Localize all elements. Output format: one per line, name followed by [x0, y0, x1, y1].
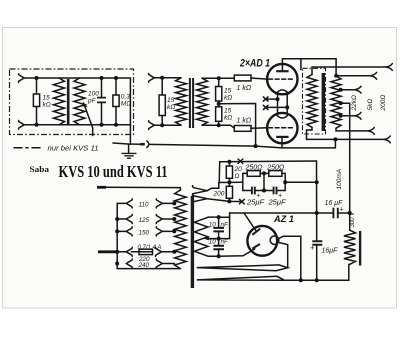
node dot B+ tap — [339, 101, 343, 105]
output transformer core — [322, 73, 325, 131]
svg-text:16μF: 16μF — [322, 248, 339, 255]
svg-text:25μF: 25μF — [246, 198, 264, 207]
tap row 110 right hook — [156, 199, 162, 208]
node dot coil 110 — [172, 201, 176, 205]
wire lower prong to 200 bottom and x-mark — [207, 199, 241, 202]
tap row 150 right hook — [156, 227, 162, 236]
capacitor C3 leads — [264, 190, 285, 192]
power transformer core — [191, 196, 194, 288]
node dot C4 left — [315, 211, 319, 215]
nur bei KVS 11 dash-dot line — [14, 147, 44, 149]
output row 5 wire — [336, 128, 368, 131]
capacitor C6 plates — [213, 246, 224, 250]
wire x2 to filament — [268, 106, 288, 108]
fuse Si1 body — [139, 249, 153, 254]
capacitor C5 plates — [213, 228, 224, 232]
svg-text:20: 20 — [234, 166, 243, 173]
svg-text:MΩ: MΩ — [121, 101, 131, 108]
wire fuse row to coil — [162, 251, 175, 253]
wire resistor row y173 — [243, 172, 285, 174]
svg-text:+: + — [310, 243, 315, 252]
resistor R7 20ohm body — [226, 166, 232, 178]
node dot C4 right — [348, 211, 352, 215]
wire AZ1 filament return — [279, 243, 288, 268]
svg-text:Ω: Ω — [235, 173, 240, 180]
svg-text:0,3: 0,3 — [121, 94, 130, 101]
input hook J2 bottom — [149, 121, 155, 130]
resistor R8 200 body — [226, 186, 232, 198]
resistor R3 15k body — [159, 95, 165, 116]
svg-text:kΩ: kΩ — [224, 95, 232, 102]
svg-text:110: 110 — [139, 201, 150, 208]
wire upper prong to y182 node — [207, 183, 219, 191]
svg-text:1 kΩ: 1 kΩ — [237, 118, 252, 125]
svg-text:250Ω: 250Ω — [266, 164, 285, 171]
wire mid node vertical — [263, 173, 265, 190]
wire ground run — [113, 143, 140, 144]
bottom bus wire — [285, 264, 349, 280]
tube V1 anode bar — [276, 70, 288, 72]
tap row 110 left hook — [126, 199, 132, 208]
fuse Si1 lead — [131, 251, 139, 253]
resistor R2 0.3M body — [113, 95, 119, 107]
node dot W2 top — [217, 215, 221, 219]
fuse Si1 through-line — [139, 251, 153, 253]
wire right node vertical — [284, 173, 286, 190]
resistor R4a 15k leads — [218, 78, 220, 125]
wire cathode/ground bus to output common — [256, 139, 336, 148]
wire B+ row to AZ1 anode1 (diagonal) — [244, 213, 256, 231]
resistor R5 1k body — [234, 75, 251, 81]
svg-text:25μF: 25μF — [268, 198, 286, 207]
output terminal 4 — [355, 112, 361, 119]
svg-text:22kΩ: 22kΩ — [351, 95, 358, 111]
node dot bus fuse row — [115, 250, 119, 254]
node dot bus AZ1 cathode — [299, 278, 303, 282]
svg-text:15: 15 — [43, 95, 51, 102]
winding W2 HV secondary — [194, 217, 208, 256]
input hook J2 top — [149, 74, 155, 83]
capacitor C1 plates — [97, 98, 106, 103]
fuse row left hook — [126, 247, 132, 256]
AZ1 anode 2 bar — [252, 244, 260, 249]
resistor R4b 15k body — [216, 107, 222, 122]
transformer T1 left coil — [54, 78, 65, 125]
wire top rail stage1 — [24, 77, 130, 79]
svg-text:KVS 10 und KVS 11: KVS 10 und KVS 11 — [59, 162, 168, 181]
svg-text:10: 10 — [209, 239, 217, 246]
transformer T1 core — [67, 79, 70, 125]
tap row 125 stub — [117, 218, 126, 220]
svg-text:10: 10 — [209, 222, 217, 229]
tap row 150 stub — [117, 230, 126, 232]
node dot mid resistor row — [262, 171, 266, 175]
capacitor C1 100pF leads — [101, 78, 103, 125]
output terminal 5 — [368, 128, 374, 135]
svg-text:15: 15 — [224, 108, 232, 115]
capacitor C4 16uF plates — [333, 208, 337, 218]
node dot 20ohm top — [227, 160, 231, 164]
output row 2 wire — [336, 75, 370, 77]
node dot bus C7 — [315, 278, 319, 282]
svg-text:100: 100 — [88, 91, 99, 98]
node dot filament 2 — [285, 105, 289, 109]
wire junction row y182 — [219, 181, 243, 183]
capacitor C5 10nF leads — [218, 217, 220, 239]
svg-text:2×AD 1: 2×AD 1 — [239, 58, 270, 70]
speaker connector lower prong — [193, 194, 208, 204]
node dot bus 240 — [115, 262, 119, 266]
wire T2 bottom rail right — [202, 125, 234, 128]
svg-text:15: 15 — [224, 88, 232, 95]
resistor R6 1k body — [234, 126, 251, 132]
svg-text:kΩ: kΩ — [43, 102, 51, 109]
capacitor C2 leads — [243, 190, 264, 192]
fuse row right hook — [155, 247, 161, 256]
wire mains1 to primary top — [105, 187, 180, 190]
resistor R9 250 body — [247, 171, 260, 177]
x-mark filament tap 2 — [263, 105, 268, 109]
transformer T2 right coil — [197, 78, 208, 125]
node dot grid junction — [254, 144, 258, 148]
tube V2 filament arc — [276, 114, 289, 118]
capacitor C6 10nF leads — [218, 239, 220, 257]
wire V1 anode to primary top — [282, 59, 336, 76]
node dot right node mid — [283, 180, 287, 184]
node dot coil 150 — [172, 229, 176, 233]
svg-text:1 kΩ: 1 kΩ — [237, 85, 252, 92]
x-mark hum line — [238, 159, 243, 164]
output terminal 3 — [355, 86, 361, 93]
resistor R4a 15k body — [216, 87, 222, 102]
capacitor C3 25uF plates — [274, 187, 277, 195]
output row 1 wire — [312, 67, 386, 75]
wire right edge stage1 — [129, 78, 131, 125]
W2 center tap arrowhead — [204, 237, 209, 241]
capacitor C7 16uF plates — [312, 241, 322, 245]
dash-dot box primary — [303, 68, 326, 134]
choke field coil — [344, 230, 356, 264]
svg-text:300 V: 300 V — [350, 211, 356, 228]
node dot sec tap 4 — [339, 114, 343, 118]
primary bottom lead — [307, 127, 313, 139]
wire fuse row stub — [117, 251, 126, 253]
svg-text:kΩ: kΩ — [224, 115, 232, 122]
output terminal 1 — [386, 64, 392, 71]
wire anode loop left corner — [300, 59, 302, 70]
node dot HT filter top — [315, 180, 319, 184]
svg-text:AZ 1: AZ 1 — [273, 214, 294, 225]
output row 4 wire — [341, 115, 355, 117]
input jack J1 bottom hook — [19, 121, 25, 130]
x-mark cathode line — [240, 199, 245, 204]
node dot bus 150 — [115, 229, 119, 233]
AZ1 anode 1 bar — [252, 229, 260, 235]
tap row 240 right hook — [156, 259, 162, 268]
winding W3 filament arm 1 — [197, 265, 288, 271]
svg-text:250Ω: 250Ω — [245, 164, 264, 171]
node dots divider — [217, 76, 221, 80]
secondary coil — [331, 76, 341, 128]
resistor R10 250 body — [269, 171, 282, 177]
svg-text:200Ω: 200Ω — [380, 95, 387, 112]
svg-text:kΩ: kΩ — [167, 104, 175, 111]
wire x1 to filament — [268, 98, 278, 100]
transformer T2 left coil — [176, 78, 187, 125]
tube AZ1 envelope — [247, 226, 277, 256]
ground — [128, 144, 130, 153]
svg-text:150: 150 — [139, 229, 150, 236]
tap row 125 right hook — [156, 215, 162, 224]
node dot cap mid — [262, 189, 266, 193]
wire hum line y161 — [220, 160, 317, 163]
wire AZ1 cathode out — [279, 236, 301, 280]
capacitor C7 gap (lead continues) — [316, 245, 318, 280]
resistor R3 15k leads — [161, 78, 163, 125]
primary coil PT — [175, 190, 187, 269]
svg-text:15: 15 — [167, 97, 175, 104]
mains lead 1 (thick stub) — [97, 186, 106, 189]
tube V1 grid (dashed) — [269, 78, 295, 80]
wire R5 to V1 grid — [251, 78, 267, 79]
connector pair on ground line — [140, 143, 144, 146]
wire right node to HT filter — [285, 181, 317, 183]
wire bottom rail stage1 — [24, 124, 130, 126]
svg-text:nF: nF — [221, 239, 230, 246]
node dot W2 bottom — [217, 254, 221, 258]
wire 200 bottom to W2 center — [219, 213, 230, 239]
dash-dot box — [10, 69, 134, 135]
node dot sec tap 3 — [339, 88, 343, 92]
svg-text:pF: pF — [87, 98, 97, 105]
tube V1 envelope — [267, 64, 297, 94]
svg-text:nur bei KVS 11: nur bei KVS 11 — [48, 146, 99, 153]
resistor R1 15k leads — [36, 78, 38, 125]
wire divider mid to V2 grid node — [219, 104, 256, 147]
svg-text:5kΩ: 5kΩ — [367, 99, 374, 111]
AZ1 filament circle — [270, 236, 279, 245]
tube V1 filament arc — [276, 90, 289, 94]
tube V1 anode lead up — [281, 59, 283, 71]
wire HT vertical x316 — [316, 161, 318, 241]
primary coil — [307, 75, 317, 128]
node dot row6 / ground join — [333, 137, 337, 141]
svg-text:240: 240 — [138, 262, 150, 269]
node dot secondary top — [334, 74, 338, 78]
output row 3 wire — [341, 89, 355, 91]
node dot coil fuse row — [172, 250, 176, 254]
T1 tap arrowhead — [82, 102, 88, 107]
wire R6 to V2 grid — [251, 127, 267, 130]
winding W3 filament arm 2 — [197, 276, 285, 280]
x-mark filament tap 1 — [263, 97, 268, 101]
resistor R1 15k body — [33, 94, 39, 107]
node dot bus 125 — [115, 217, 119, 221]
output terminal 2 — [370, 72, 376, 79]
wire B+ row y213 — [230, 212, 350, 214]
wire row 125 to coil — [162, 218, 174, 220]
wire W2 bottom to AZ1 anode2 — [219, 249, 255, 256]
wire row 240 to coil — [162, 263, 174, 265]
wire ground line to grid node — [150, 144, 255, 146]
tube V2 envelope — [267, 113, 297, 143]
tube V2 grid (dashed) — [269, 127, 295, 129]
T1 tap arrow wire — [85, 106, 93, 135]
resistor R7 20ohm leads — [228, 162, 230, 187]
svg-text:+: + — [340, 207, 344, 214]
wire left node vertical — [242, 173, 244, 190]
wire hum-line left end down to W2 top — [218, 162, 221, 183]
input jack J1 top hook — [19, 74, 25, 83]
tube V2 anode bar — [276, 136, 288, 138]
transformer T1 right coil — [74, 78, 85, 125]
capacitor C2 25uF plates — [252, 187, 255, 195]
tap row 125 left hook — [126, 215, 132, 224]
node dot 20/200 junction — [227, 180, 231, 184]
speaker connector upper prong — [193, 186, 208, 196]
wire B+ tap to HT line — [341, 103, 350, 230]
output terminal 6 — [384, 136, 390, 143]
node dots stage1 — [35, 76, 39, 80]
tap row 240 left hook — [126, 259, 132, 268]
svg-text:100mA: 100mA — [336, 169, 343, 190]
wire row 150 to coil — [162, 230, 174, 232]
wire primary bottom to tap bus — [117, 203, 180, 268]
node dots stage2 left — [160, 76, 164, 80]
wire W2 leads — [208, 217, 219, 256]
svg-text:Saba: Saba — [30, 164, 50, 174]
wire top rail stage2 — [154, 77, 181, 79]
mains lead 2 (thick stub) — [98, 250, 119, 253]
wire T2 top to grid line — [202, 77, 234, 79]
svg-text:nF: nF — [221, 222, 230, 229]
tube V2 anode lead down — [281, 137, 283, 148]
svg-text:125: 125 — [139, 217, 150, 224]
wire stage1 to ground bus — [129, 125, 131, 144]
wire W2 top corner — [219, 216, 230, 218]
tube V1 filament leads down / V2 filament leads up — [278, 94, 288, 114]
tap row 150 left hook — [126, 227, 132, 236]
transformer T2 core bars — [189, 78, 191, 128]
svg-text:200: 200 — [213, 191, 225, 198]
node dot filament 1 — [276, 97, 280, 101]
node dot W2 mid — [217, 237, 221, 241]
node dot 200 bottom — [227, 199, 231, 203]
resistor R2 0.3M leads — [115, 78, 117, 125]
choke core bar — [359, 231, 361, 266]
wire row 110 to coil — [162, 202, 174, 204]
resistor R8 bottom lead — [228, 198, 230, 201]
wire bottom rail stage2 — [154, 124, 181, 126]
output row 6 wire — [307, 138, 385, 140]
node dot coil 125 — [172, 217, 176, 221]
